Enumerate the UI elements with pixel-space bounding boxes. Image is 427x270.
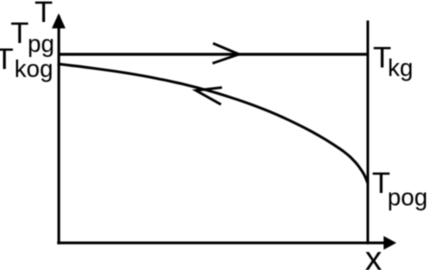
svg-text:pg: pg <box>28 31 55 58</box>
svg-text:T: T <box>0 43 14 76</box>
svg-text:T: T <box>35 0 53 29</box>
svg-text:x: x <box>365 240 382 270</box>
svg-text:pog: pog <box>388 185 427 212</box>
svg-text:kog: kog <box>14 56 53 83</box>
svg-text:kg: kg <box>388 55 413 82</box>
